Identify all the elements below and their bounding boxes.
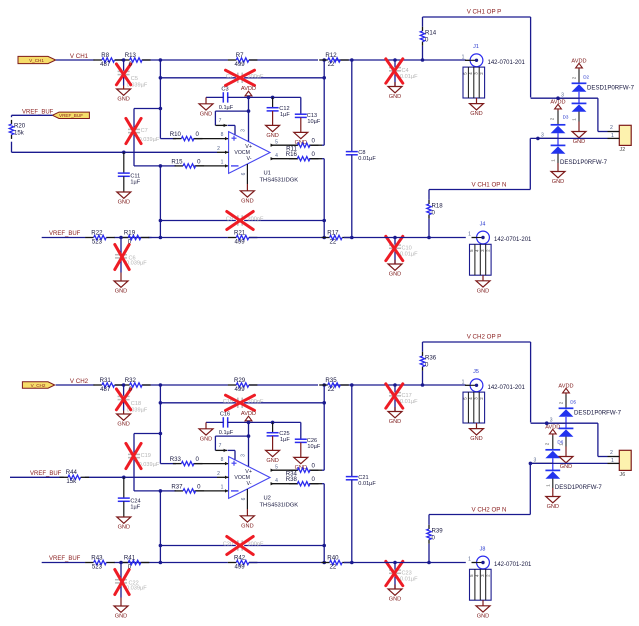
svg-text:C4: C4 bbox=[402, 68, 409, 74]
svg-text:2: 2 bbox=[217, 146, 220, 152]
ground below C22 bbox=[114, 598, 128, 620]
svg-text:AVDD: AVDD bbox=[571, 58, 586, 64]
svg-text:GND: GND bbox=[266, 458, 278, 464]
diode D5 DESD1P0RFW-7 bbox=[547, 383, 622, 446]
svg-text:1: 1 bbox=[462, 55, 465, 61]
resistor R16 (0) bbox=[286, 151, 319, 161]
svg-text:15k: 15k bbox=[66, 478, 77, 485]
resistor R12 (22) bbox=[319, 52, 349, 68]
resistor R21 (499) bbox=[228, 229, 258, 245]
junction bbox=[529, 462, 533, 466]
wire R14 stub bbox=[422, 342, 424, 385]
svg-text:0: 0 bbox=[197, 483, 201, 490]
svg-text:10µF: 10µF bbox=[307, 444, 320, 450]
svg-text:VREF_BUF: VREF_BUF bbox=[49, 231, 81, 237]
wire summing node - bbox=[160, 166, 228, 238]
wire bottom bbox=[42, 562, 466, 564]
svg-text:V+: V+ bbox=[245, 469, 252, 475]
ground below C23 bbox=[388, 585, 402, 603]
svg-text:GND: GND bbox=[470, 111, 482, 117]
svg-text:C20: C20 bbox=[223, 542, 233, 548]
resistor R22 (523) bbox=[85, 229, 115, 245]
svg-text:1: 1 bbox=[611, 133, 614, 139]
svg-text:0: 0 bbox=[196, 131, 200, 138]
svg-text:142-0701-201: 142-0701-201 bbox=[494, 562, 532, 568]
ground left of C3 bbox=[199, 97, 213, 117]
svg-text:6: 6 bbox=[241, 497, 247, 500]
junction bbox=[421, 58, 425, 62]
svg-text:1: 1 bbox=[572, 118, 577, 121]
svg-text:GND: GND bbox=[117, 97, 129, 103]
svg-text:C8: C8 bbox=[358, 150, 365, 156]
wire from VREF_BUF port bbox=[12, 115, 218, 152]
svg-text:R16: R16 bbox=[286, 151, 298, 158]
net label V CH2 OP P bbox=[467, 334, 502, 341]
svg-text:GND: GND bbox=[241, 523, 253, 529]
junction bbox=[322, 383, 326, 387]
svg-text:0: 0 bbox=[312, 151, 316, 158]
svg-text:GND: GND bbox=[200, 436, 212, 442]
ground below C10 bbox=[388, 260, 402, 278]
svg-text:R13: R13 bbox=[125, 52, 137, 59]
svg-text:1: 1 bbox=[462, 380, 465, 386]
svg-text:C9: C9 bbox=[226, 217, 233, 223]
svg-text:V-: V- bbox=[246, 156, 251, 162]
net label VREF_BUF (mid) bbox=[30, 471, 62, 477]
junction bbox=[556, 96, 560, 100]
svg-text:487: 487 bbox=[100, 61, 111, 68]
junction bbox=[427, 236, 431, 240]
svg-text:10µF: 10µF bbox=[307, 119, 320, 125]
junction bbox=[427, 561, 431, 565]
svg-text:AVDD: AVDD bbox=[558, 383, 573, 389]
resistor R7 (499) bbox=[228, 52, 258, 68]
wire summing node + bbox=[160, 60, 228, 139]
capacitor C5 (DNP 0.039uF) bbox=[116, 60, 147, 89]
svg-text:2: 2 bbox=[217, 471, 220, 477]
svg-text:J2: J2 bbox=[620, 147, 626, 153]
svg-text:0.01µF: 0.01µF bbox=[400, 74, 418, 80]
svg-text:R12: R12 bbox=[325, 52, 337, 59]
svg-text:AVDD: AVDD bbox=[545, 424, 560, 430]
svg-text:499: 499 bbox=[235, 563, 246, 570]
svg-text:2: 2 bbox=[571, 76, 576, 79]
junction bbox=[545, 421, 549, 425]
junction bbox=[247, 434, 251, 438]
svg-text:523: 523 bbox=[92, 238, 103, 245]
svg-text:C5: C5 bbox=[131, 76, 138, 82]
capacitor C8 (0.01uF) bbox=[346, 60, 377, 238]
resistor R41 (0) bbox=[120, 554, 150, 570]
junction bbox=[122, 151, 126, 155]
wire R18 stub bbox=[428, 515, 430, 563]
capacitor C24 (1uF) bbox=[118, 477, 141, 517]
wire summing node + bbox=[160, 385, 228, 464]
svg-text:C18: C18 bbox=[131, 401, 141, 407]
ground below C12 bbox=[266, 111, 280, 139]
svg-text:2: 2 bbox=[610, 125, 613, 131]
diode D2 DESD1P0RFW-7 bbox=[558, 58, 635, 121]
svg-text:142-0701-201: 142-0701-201 bbox=[488, 385, 526, 391]
svg-text:R15: R15 bbox=[171, 158, 183, 165]
junction bbox=[322, 544, 326, 548]
svg-text:1µF: 1µF bbox=[280, 437, 290, 443]
wire to J2 pin2 bbox=[531, 98, 608, 131]
svg-text:R10: R10 bbox=[170, 131, 182, 138]
svg-text:142-0701-201: 142-0701-201 bbox=[494, 237, 532, 243]
junction bbox=[322, 236, 326, 240]
svg-text:487: 487 bbox=[100, 386, 111, 393]
svg-text:R32: R32 bbox=[125, 377, 137, 384]
wire rail V CH2 OP N bbox=[429, 463, 530, 514]
net label VREF_BUF (upper) bbox=[22, 109, 54, 115]
resistor R17 (22) bbox=[321, 229, 351, 245]
junction bbox=[247, 421, 251, 425]
wire to J2 pin1 bbox=[530, 137, 607, 139]
svg-text:GND: GND bbox=[117, 422, 129, 428]
svg-text:1µF: 1µF bbox=[280, 112, 290, 118]
junction bbox=[393, 383, 397, 387]
junction bbox=[159, 236, 163, 240]
junction bbox=[393, 58, 397, 62]
svg-text:22: 22 bbox=[328, 386, 335, 393]
svg-text:0.1µF: 0.1µF bbox=[219, 105, 234, 111]
net label V CH1 OP N bbox=[472, 181, 507, 188]
ground below C4 bbox=[388, 82, 402, 100]
net label VREF BUF (lower) bbox=[49, 556, 81, 562]
svg-text:3: 3 bbox=[241, 129, 247, 132]
junction bbox=[159, 489, 163, 493]
junction bbox=[159, 76, 163, 80]
svg-text:J6: J6 bbox=[620, 472, 626, 478]
svg-text:8: 8 bbox=[221, 457, 224, 463]
resistor R34 (0) bbox=[286, 463, 319, 478]
ground below C18 bbox=[117, 411, 131, 428]
svg-text:2: 2 bbox=[610, 450, 613, 456]
svg-text:R21: R21 bbox=[234, 229, 246, 236]
svg-text:C3: C3 bbox=[221, 87, 228, 93]
resistor R11 (0) bbox=[286, 138, 318, 153]
svg-text:J4: J4 bbox=[480, 221, 486, 227]
svg-text:VOCM: VOCM bbox=[234, 475, 250, 481]
svg-text:DESD1P0RFW-7: DESD1P0RFW-7 bbox=[574, 410, 622, 417]
wire to J2 pin2 bbox=[531, 423, 608, 456]
ground below C6 bbox=[114, 273, 128, 295]
svg-text:C17: C17 bbox=[402, 393, 412, 399]
svg-text:0: 0 bbox=[312, 138, 316, 145]
capacitor C11 (1uF) bbox=[118, 152, 141, 192]
svg-text:R38: R38 bbox=[286, 476, 298, 483]
svg-text:5: 5 bbox=[275, 139, 278, 145]
svg-text:3: 3 bbox=[561, 92, 564, 98]
svg-text:2: 2 bbox=[558, 401, 563, 404]
ground below C17 bbox=[388, 407, 402, 425]
junction bbox=[350, 58, 354, 62]
svg-text:0.039µF: 0.039µF bbox=[126, 585, 147, 591]
resistor R13 (0) bbox=[121, 52, 151, 68]
ground below D6 bbox=[546, 488, 560, 510]
capacitor C12 (1uF) bbox=[267, 97, 291, 117]
svg-text:R29: R29 bbox=[234, 377, 246, 384]
capacitor C15 (DNP 200pF) bbox=[160, 395, 324, 410]
svg-text:GND: GND bbox=[389, 419, 401, 425]
svg-text:0: 0 bbox=[432, 534, 436, 541]
connector J2 bbox=[608, 125, 632, 153]
svg-text:1: 1 bbox=[551, 159, 556, 162]
capacitor C25 (1uF) bbox=[267, 422, 291, 442]
svg-text:2: 2 bbox=[544, 442, 549, 445]
resistor R19 (0) bbox=[120, 229, 150, 245]
svg-text:1: 1 bbox=[611, 458, 614, 464]
junction bbox=[122, 476, 126, 480]
svg-text:6: 6 bbox=[241, 172, 247, 175]
svg-text:GND: GND bbox=[118, 525, 130, 531]
capacitor C23 (DNP 0.01uF) bbox=[386, 561, 418, 589]
svg-text:V-: V- bbox=[246, 481, 251, 487]
svg-text:V CH2 OP P: V CH2 OP P bbox=[467, 334, 502, 341]
junction bbox=[159, 383, 163, 387]
junction bbox=[159, 219, 163, 223]
ground below D2 bbox=[572, 122, 586, 146]
svg-text:1: 1 bbox=[468, 232, 471, 238]
diode D6 DESD1P0RFW-7 bbox=[530, 424, 602, 491]
junction bbox=[247, 109, 251, 113]
svg-text:GND: GND bbox=[573, 139, 585, 145]
svg-text:R8: R8 bbox=[101, 52, 109, 59]
svg-text:C23: C23 bbox=[402, 570, 412, 576]
junction bbox=[393, 236, 397, 240]
junction bbox=[122, 58, 126, 62]
resistor R20 (15k) bbox=[9, 120, 25, 139]
svg-text:DESD1P0RFW-7: DESD1P0RFW-7 bbox=[560, 159, 608, 166]
svg-text:0.01µF: 0.01µF bbox=[400, 399, 418, 405]
junction bbox=[322, 401, 326, 405]
svg-text:GND: GND bbox=[389, 272, 401, 278]
resistor R32 (0) bbox=[121, 377, 151, 393]
svg-text:C7: C7 bbox=[141, 128, 148, 134]
port V_CH2 bbox=[22, 382, 54, 388]
svg-text:22: 22 bbox=[330, 563, 337, 570]
ground below C24 bbox=[117, 517, 131, 531]
svg-text:R37: R37 bbox=[171, 483, 183, 490]
resistor R15 (0) bbox=[171, 158, 204, 168]
wire to J2 pin1 bbox=[530, 462, 607, 464]
svg-text:22: 22 bbox=[330, 238, 337, 245]
ground below C5 bbox=[117, 86, 131, 103]
svg-text:GND: GND bbox=[547, 504, 559, 510]
wire out P bbox=[271, 60, 325, 147]
svg-text:V CH1: V CH1 bbox=[70, 53, 89, 60]
capacitor C18 (DNP 0.039uF) bbox=[116, 385, 147, 414]
svg-text:0: 0 bbox=[312, 463, 316, 470]
net label VREF BUF (lower) bbox=[49, 231, 81, 237]
svg-text:U1: U1 bbox=[264, 171, 271, 177]
svg-text:C16: C16 bbox=[220, 412, 230, 418]
svg-text:J5: J5 bbox=[473, 369, 479, 375]
resistor R18 (0) bbox=[427, 200, 443, 219]
wire pin7 tie bbox=[215, 110, 248, 112]
svg-text:AVDD: AVDD bbox=[550, 99, 565, 105]
capacitor C10 (DNP 0.01uF) bbox=[386, 236, 418, 264]
junction bbox=[159, 561, 163, 565]
svg-text:8: 8 bbox=[221, 132, 224, 138]
svg-text:0.01µF: 0.01µF bbox=[358, 481, 376, 487]
junction bbox=[421, 383, 425, 387]
resistor R42 (499) bbox=[228, 554, 258, 570]
svg-text:D5: D5 bbox=[570, 399, 576, 404]
junction bbox=[350, 383, 354, 387]
junction bbox=[271, 421, 275, 425]
wire VREF_BUF bbox=[10, 476, 217, 478]
svg-text:R43: R43 bbox=[91, 554, 103, 561]
svg-text:GND: GND bbox=[115, 289, 127, 295]
net label V CH1 OP P bbox=[467, 9, 502, 16]
svg-text:V CH1 OP P: V CH1 OP P bbox=[467, 9, 502, 16]
resistor R33 (0) bbox=[170, 456, 203, 466]
power AVDD bbox=[241, 86, 256, 97]
resistor R8 (487) bbox=[93, 52, 123, 68]
svg-text:0.1µF: 0.1µF bbox=[219, 430, 234, 436]
svg-text:GND: GND bbox=[477, 288, 489, 294]
connector J4 142-0701-201 bbox=[468, 221, 532, 294]
svg-text:VREF_BUF: VREF_BUF bbox=[59, 113, 83, 118]
junction bbox=[322, 219, 326, 223]
svg-text:200pF: 200pF bbox=[248, 542, 264, 548]
capacitor C3 (0.1uF) bbox=[206, 87, 249, 111]
svg-text:0.039µF: 0.039µF bbox=[126, 260, 147, 266]
svg-text:GND: GND bbox=[470, 436, 482, 442]
resistor R10 (0) bbox=[170, 131, 203, 141]
resistor R37 (0) bbox=[171, 483, 204, 493]
svg-text:D6: D6 bbox=[557, 440, 563, 445]
ground below C25 bbox=[266, 436, 280, 464]
svg-text:GND: GND bbox=[200, 111, 212, 117]
svg-text:R35: R35 bbox=[325, 377, 337, 384]
ground below C11 bbox=[117, 192, 131, 206]
junction bbox=[159, 107, 163, 111]
junction bbox=[247, 96, 251, 100]
capacitor C6 (DNP 0.039uF) bbox=[115, 238, 147, 273]
svg-text:7: 7 bbox=[219, 118, 222, 124]
capacitor C19 (DNP 0.039uF) bbox=[126, 434, 160, 491]
ground op-amp U1 pin6 bbox=[240, 164, 254, 204]
svg-text:15k: 15k bbox=[14, 129, 25, 136]
svg-text:22: 22 bbox=[328, 61, 335, 68]
svg-text:R33: R33 bbox=[170, 456, 182, 463]
junction bbox=[159, 432, 163, 436]
connector J1 142-0701-201 bbox=[462, 44, 526, 117]
resistor R38 (0) bbox=[286, 476, 319, 486]
resistor R36 (0) bbox=[420, 352, 436, 371]
svg-text:GND: GND bbox=[266, 133, 278, 139]
svg-text:R42: R42 bbox=[234, 554, 246, 561]
junction bbox=[536, 137, 540, 141]
svg-text:V+: V+ bbox=[245, 144, 252, 150]
port VREF_BUF bbox=[52, 112, 89, 118]
junction bbox=[122, 383, 126, 387]
wire rail V CH1 OP N bbox=[429, 138, 530, 189]
svg-text:200pF: 200pF bbox=[248, 217, 264, 223]
net label V CH2 OP N bbox=[472, 506, 507, 513]
resistor R31 (487) bbox=[93, 377, 123, 393]
svg-text:GND: GND bbox=[118, 200, 130, 206]
junction bbox=[322, 561, 326, 565]
svg-text:C10: C10 bbox=[402, 245, 412, 251]
capacitor C7 (DNP 0.039uF) bbox=[126, 109, 160, 166]
svg-text:GND: GND bbox=[560, 464, 572, 470]
connector J5 142-0701-201 bbox=[462, 369, 526, 442]
svg-text:0: 0 bbox=[425, 361, 429, 368]
svg-text:R7: R7 bbox=[236, 52, 244, 59]
svg-text:0.01µF: 0.01µF bbox=[400, 577, 418, 583]
op-amp U1 THS4531IDGK bbox=[215, 97, 298, 183]
svg-text:499: 499 bbox=[235, 61, 246, 68]
net label V CH2 bbox=[70, 378, 89, 385]
svg-text:GND: GND bbox=[115, 614, 127, 620]
svg-text:200pF: 200pF bbox=[248, 74, 264, 80]
svg-text:1: 1 bbox=[221, 484, 224, 490]
svg-text:D3: D3 bbox=[563, 115, 569, 120]
svg-text:499: 499 bbox=[235, 386, 246, 393]
svg-text:5: 5 bbox=[275, 464, 278, 470]
junction bbox=[322, 58, 326, 62]
wire bottom bbox=[42, 237, 466, 239]
svg-text:J1: J1 bbox=[473, 44, 479, 50]
svg-text:VREF_BUF: VREF_BUF bbox=[30, 471, 62, 477]
svg-text:0: 0 bbox=[196, 456, 200, 463]
svg-text:1: 1 bbox=[468, 557, 471, 563]
svg-text:3: 3 bbox=[534, 458, 537, 464]
svg-text:7: 7 bbox=[219, 443, 222, 449]
power AVDD bbox=[241, 411, 256, 422]
svg-text:0.01µF: 0.01µF bbox=[400, 252, 418, 258]
svg-text:R22: R22 bbox=[91, 229, 103, 236]
capacitor C9 (DNP 200pF) bbox=[160, 212, 324, 230]
wire input bbox=[56, 59, 466, 61]
svg-text:1µF: 1µF bbox=[130, 504, 140, 510]
resistor R43 (523) bbox=[85, 554, 115, 570]
svg-text:C21: C21 bbox=[358, 475, 368, 481]
wire out N bbox=[271, 482, 325, 563]
junction bbox=[159, 164, 163, 168]
resistor R44 (15k) bbox=[60, 469, 90, 485]
junction bbox=[393, 561, 397, 565]
svg-text:V CH1 OP N: V CH1 OP N bbox=[472, 181, 507, 188]
svg-text:VREF_BUF: VREF_BUF bbox=[49, 556, 81, 562]
svg-text:1µF: 1µF bbox=[130, 179, 140, 185]
junction bbox=[322, 76, 326, 80]
svg-text:499: 499 bbox=[235, 238, 246, 245]
svg-text:GND: GND bbox=[552, 179, 564, 185]
svg-text:GND: GND bbox=[389, 597, 401, 603]
svg-text:C19: C19 bbox=[141, 453, 151, 459]
wire avdd rail bbox=[249, 421, 301, 423]
svg-text:R41: R41 bbox=[124, 554, 136, 561]
capacitor C4 (DNP 0.01uF) bbox=[386, 59, 418, 87]
port V_CH1 bbox=[18, 56, 56, 63]
capacitor C22 (DNP 0.039uF) bbox=[115, 563, 147, 598]
resistor R14 (0) bbox=[420, 27, 436, 46]
svg-text:1: 1 bbox=[545, 484, 550, 487]
junction bbox=[350, 561, 354, 565]
capacitor C17 (DNP 0.01uF) bbox=[386, 384, 418, 412]
svg-text:DESD1P0RFW-7: DESD1P0RFW-7 bbox=[555, 484, 603, 491]
connector J8 142-0701-201 bbox=[468, 546, 532, 619]
net label V CH1 bbox=[70, 53, 89, 60]
ground op-amp U2 pin6 bbox=[240, 489, 254, 529]
ground below C13 bbox=[294, 118, 308, 147]
svg-text:D2: D2 bbox=[583, 74, 589, 79]
